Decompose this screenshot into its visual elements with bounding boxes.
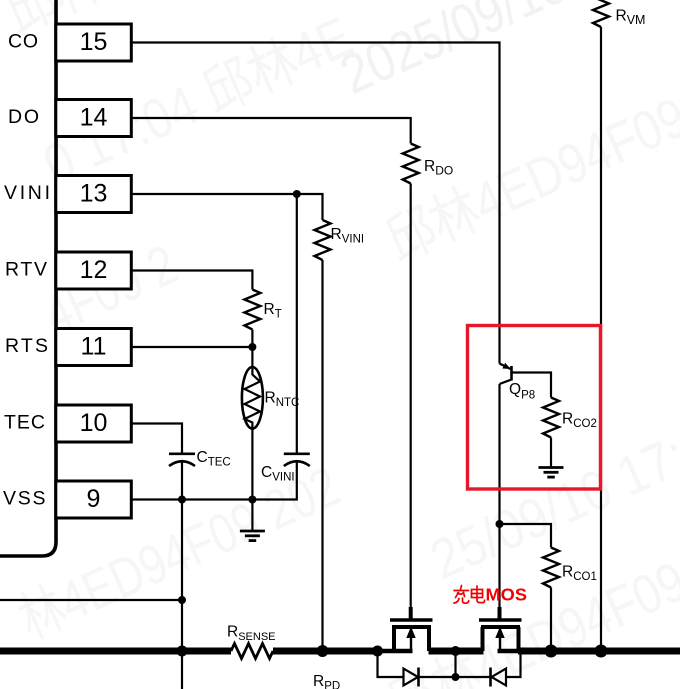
resistor R_DO: [403, 144, 419, 184]
svg-text:DO: DO: [8, 106, 39, 128]
transistor Q_P8 (PNP): [500, 363, 512, 384]
ground below R_CO2: [539, 438, 564, 478]
node collector/R_CO1 junction: [496, 520, 504, 528]
wire DO pin14 to R_DO: [132, 118, 411, 144]
resistor R_SENSE: [231, 644, 273, 659]
MOSFET M2 (charge): [479, 607, 522, 651]
wire from left edge to C_TEC column: [0, 599, 182, 601]
resistor R_VM (cut at top): [593, 0, 609, 27]
bus B- thick rail: [0, 648, 680, 655]
wire VSS pin9 row: [132, 462, 297, 500]
IC pin 10 box: [56, 405, 132, 442]
svg-text:RT: RT: [264, 301, 282, 321]
wire D1 to middle node: [419, 676, 456, 678]
IC U1 body edge: [0, 0, 56, 556]
svg-text:RTS: RTS: [5, 335, 48, 357]
wire R_DO to M1 gate: [410, 184, 412, 608]
IC pin 13 box: [56, 176, 132, 213]
label charge MOS (red): [454, 586, 485, 604]
resistor R_CO2: [543, 398, 559, 438]
wire RTV pin12 to R_T: [132, 271, 253, 290]
node bus end at M1 source: [372, 646, 383, 657]
MOSFET M1 (discharge): [377, 607, 433, 651]
svg-text:RNTC: RNTC: [265, 390, 300, 410]
node VSS/R_NTC junction: [248, 496, 256, 504]
node bus/C_TEC column: [177, 646, 188, 657]
svg-text:14: 14: [80, 104, 108, 132]
node RTS junction: [248, 343, 256, 351]
svg-text:RPD: RPD: [313, 673, 340, 689]
svg-text:13: 13: [80, 180, 108, 208]
svg-text:RTV: RTV: [5, 259, 47, 281]
node diode row middle: [452, 673, 460, 681]
svg-text:CO: CO: [8, 31, 38, 53]
capacitor C_VINI: [284, 454, 310, 466]
svg-text:RVM: RVM: [616, 8, 646, 28]
svg-text:RCO2: RCO2: [562, 411, 597, 431]
wire Q_P8 collector down to R_CO1 node and M2 gate: [498, 384, 500, 607]
svg-text:VINI: VINI: [4, 182, 50, 204]
wire middle node bus to diode row: [454, 651, 456, 677]
ground below VSS node: [240, 500, 265, 541]
wire Q_P8 base to R_CO2: [512, 373, 552, 398]
IC pin 15 box: [56, 24, 132, 61]
wire C_TEC to VSS row: [181, 462, 183, 500]
IC pin 14 box: [56, 100, 132, 137]
svg-text:TEC: TEC: [4, 412, 45, 434]
wire bus to diode row left: [378, 651, 404, 677]
svg-text:MOS: MOS: [486, 585, 528, 605]
node bus/R_VINI column: [317, 645, 329, 657]
wire middle node to D2: [456, 676, 491, 678]
capacitor C_TEC: [169, 454, 195, 466]
svg-text:12: 12: [80, 256, 108, 284]
svg-text:15: 15: [80, 28, 108, 56]
node bus/R_CO1: [545, 645, 558, 658]
wire D2 to bus right: [506, 651, 521, 677]
wire C_VINI top to VINI node: [296, 194, 298, 454]
diode D2 (body diode M2): [491, 668, 507, 687]
wire TEC pin10 to C_TEC: [132, 424, 183, 453]
resistor R_VINI: [315, 220, 331, 260]
wire C_TEC column down through bus to bottom edge: [181, 500, 183, 689]
wire RTS pin11: [132, 346, 253, 348]
resistor R_T: [244, 290, 260, 330]
node bus/R_VM: [595, 645, 608, 658]
wire R_NTC to VSS row: [251, 429, 253, 500]
IC pin 11 box: [56, 329, 132, 366]
wire node to R_CO1: [500, 524, 552, 548]
svg-text:VSS: VSS: [3, 488, 46, 510]
svg-text:RVINI: RVINI: [331, 226, 365, 246]
svg-text:RSENSE: RSENSE: [227, 624, 276, 644]
node bus between MOSFETs: [451, 646, 461, 656]
resistor R_CO1: [543, 548, 559, 588]
wire R_VM to bus: [600, 27, 602, 651]
IC pin 9 box: [56, 481, 132, 518]
svg-text:25/09/10 17:04 邱: 25/09/10 17:04 邱: [421, 375, 680, 591]
thermistor R_NTC: [242, 367, 263, 429]
node left-wire junction: [178, 596, 186, 604]
svg-text:9: 9: [87, 485, 101, 513]
IC pin 12 box: [56, 252, 132, 289]
node VSS/C_TEC junction: [178, 496, 186, 504]
svg-text:CVINI: CVINI: [261, 464, 295, 484]
svg-text:11: 11: [81, 333, 107, 361]
red highlight box: [468, 326, 601, 490]
wire R_VINI to B- bus: [321, 260, 323, 651]
node VINI junction: [293, 190, 301, 198]
svg-text:10: 10: [80, 409, 108, 437]
wire RTS node to R_NTC: [251, 347, 253, 369]
svg-text:RDO: RDO: [424, 158, 453, 178]
svg-text:RCO1: RCO1: [562, 564, 597, 584]
diode D1 (body diode M1): [404, 668, 419, 687]
wire CO pin15 to Q_P8 emitter: [132, 43, 500, 364]
svg-text:CTEC: CTEC: [197, 449, 231, 469]
wire R_CO1 to bus: [550, 588, 552, 652]
wire VINI pin13 to R_VINI: [132, 194, 323, 220]
wire R_T to RTS node: [251, 330, 253, 348]
svg-text:QP8: QP8: [509, 381, 535, 402]
